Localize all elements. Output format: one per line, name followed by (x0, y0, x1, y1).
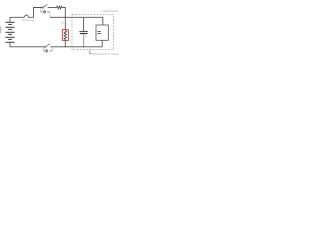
svg-text:Verbraucher: Verbraucher (102, 9, 118, 13)
wire: switch S2 to device leads (bottom rail) (50, 46, 102, 48)
wire: hump to corner, up to top rail (28, 8, 42, 18)
lamp La2 (glow lamp across switch S2) (44, 47, 53, 52)
svg-text:Widerstand im Gerät: Widerstand im Gerät (93, 52, 119, 56)
lamp La1 (glow lamp across switch S1) (41, 8, 50, 17)
node: resistor R2 to bottom rail junction (65, 46, 66, 47)
wire: battery + terminal up and right (10, 17, 24, 22)
fuse hump on positive wire (25, 15, 29, 17)
node: capacitor C1 to bottom rail junction (83, 46, 84, 47)
wire: resistor R2 down to bottom rail (64, 39, 66, 47)
resistor R2 (vertical zigzag, highlighted) (64, 31, 67, 40)
capacitor C1 top lead (83, 17, 85, 31)
switch S1 (42, 4, 47, 8)
wire: node A right into enclosure, down to device (65, 17, 103, 25)
battery B1 (multi-cell) (5, 22, 14, 42)
node A junction (65, 17, 66, 18)
device U1 (load box) (96, 25, 108, 40)
capacitor C1 plates (79, 30, 87, 32)
wire: switch S1 to resistor R1 (48, 7, 57, 9)
capacitor C1 bottom lead (83, 34, 85, 47)
svg-text:C: C (85, 35, 87, 39)
dashed enclosure (device boundary) (72, 15, 114, 50)
device U1 marking (=) (97, 31, 101, 33)
wire: resistor R1 to right corner, down to node A (62, 8, 65, 18)
wire: node A down to resistor R2 (64, 17, 66, 31)
resistor R1 (zigzag) (57, 6, 63, 9)
wire: device U1 down to bottom rail (101, 40, 103, 47)
wire: battery - terminal down and right (bottom rail) (10, 42, 44, 47)
svg-text:Sicherung: Sicherung (22, 18, 35, 22)
battery value label (0, 27, 2, 34)
wire: lamp branch rail to node A (50, 16, 65, 18)
switch S2 (45, 44, 50, 48)
caption leader line (90, 50, 93, 54)
svg-text:R: R (61, 21, 64, 25)
red highlight box around R2 (62, 30, 68, 41)
